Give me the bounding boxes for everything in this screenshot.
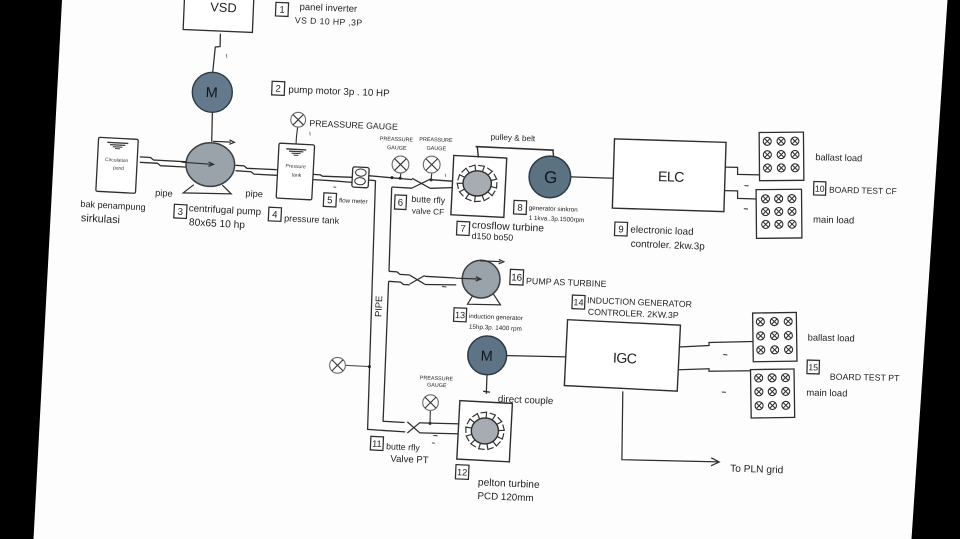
stray tick by VSD wire [225,54,228,58]
pipe pump to tank lower wall [236,171,277,176]
svg-text:Valve PT: Valve PT [390,454,429,467]
pipe valve V2 to PAT lower [425,284,457,286]
pipe tank to meter upper wall [313,174,352,177]
generator G1 circle [529,156,571,198]
svg-text:6: 6 [398,197,404,208]
label 16 box [510,269,524,285]
butterfly valve V3 blade A [407,422,420,433]
svg-text:ballast load: ballast load [808,333,855,344]
pump P1 stand [183,185,231,194]
butterfly valve V1 blade B [412,179,431,188]
ballast load bank PT [753,312,797,361]
pressure tank box [276,143,314,200]
label 10 box [814,182,826,196]
pressure gauge PG2 stem [430,173,433,180]
svg-text:GAUGE: GAUGE [427,382,447,389]
PAT center arrow [456,277,479,280]
svg-text:PCD 120mm: PCD 120mm [477,491,533,504]
wire motor M1 to pump P1 [211,112,214,141]
svg-text:d150 bo50: d150 bo50 [471,231,513,243]
svg-text:panel inverter: panel inverter [299,2,357,15]
svg-text:butte rfly: butte rfly [411,194,446,206]
dash minus CF lower [744,208,748,210]
circulation pond tank box [96,137,138,193]
svg-text:10: 10 [815,184,825,194]
label 2 box [272,81,285,95]
pipe valve V2 to PAT upper [425,276,456,278]
junction node gauge1 [399,177,402,180]
pelton turbine runner [471,418,498,444]
flow meter FM1 body [352,167,369,188]
svg-text:15: 15 [808,362,818,372]
junction node gauge2 [430,178,433,181]
butterfly valve V1 blade A [412,178,431,188]
pressure gauge PG1 [392,156,409,173]
pipe meter to valve upper wall [369,176,413,180]
pipe branch PAT lower wall [389,281,410,285]
pressure gauge PG0 stem [296,127,298,144]
label 15 box [807,360,820,374]
dash minus pelton pipe B [432,442,435,444]
dash minus PT lower [722,391,726,393]
svg-text:pond: pond [113,165,124,172]
tank water surface mark [286,149,306,156]
svg-text:To PLN grid: To PLN grid [730,464,784,477]
wire IGC to main PT [679,369,751,372]
svg-text:BOARD TEST CF: BOARD TEST CF [829,185,897,197]
svg-text:pipe: pipe [155,188,173,199]
pelton turbine box [457,401,513,462]
pipe valve V3 to pelton upper [420,423,460,424]
motor M1 circle [192,72,232,112]
svg-text:8: 8 [517,203,523,214]
PAT stand [468,294,501,305]
label 7 box [456,221,469,235]
label 1 box [275,2,288,16]
belt line [476,147,554,151]
label 13 box [454,308,467,322]
svg-text:GAUGE: GAUGE [387,145,407,152]
pump P1 center arrow [182,162,212,164]
pipe vertical left wall [368,181,406,432]
svg-text:flow meter: flow meter [339,197,368,205]
pipe vertical right wall upper [389,187,392,271]
svg-text:GAUGE: GAUGE [426,146,446,153]
svg-text:main load: main load [806,388,847,400]
label 8 box [514,200,527,214]
svg-text:11: 11 [372,439,382,449]
label 12 box [455,465,469,480]
svg-text:tank: tank [291,172,301,179]
stray tick right of PG2 [444,174,446,177]
svg-text:BOARD TEST PT: BOARD TEST PT [830,372,900,383]
label 3 box [174,204,187,218]
svg-text:14: 14 [573,297,584,307]
svg-text:ballast load: ballast load [815,152,862,163]
pipe valve to turbine lower wall [431,187,453,190]
dash minus PAT branch [442,285,446,288]
wire M2 to IGC [507,356,567,357]
svg-text:16: 16 [511,272,523,283]
junction node PG3 [368,365,371,368]
crossflow turbine runner [463,171,491,196]
svg-text:2: 2 [275,84,281,95]
svg-text:IGC: IGC [613,351,637,368]
svg-text:3: 3 [177,207,183,218]
VSD drive panel box [183,0,254,32]
PAT circle [462,260,500,298]
pipe valve to turbine upper wall [431,180,453,182]
svg-text:sirkulasi: sirkulasi [81,212,121,226]
wire G1 to ELC [571,177,613,178]
pressure gauge PG3 [330,357,346,373]
pipe branch PAT upper wall [389,271,410,275]
label 9 box [614,222,627,236]
pipe pond to pump upper wall [140,157,187,162]
butterfly valve V3 blade B [407,422,420,433]
belt right tick [552,150,555,156]
wire IGC to PLN grid [622,391,719,462]
coupling crossbar [483,391,490,392]
svg-text:M: M [205,85,218,101]
belt left tick [477,147,478,158]
svg-text:pipe: pipe [245,188,263,199]
wire ELC to ballast CF [725,167,760,175]
pressure gauge PG4 stem [429,410,431,423]
svg-text:Circulation: Circulation [105,157,129,164]
pipe valve V3 to pelton lower [420,433,460,434]
butterfly valve V2 blade A [410,275,425,284]
pressure gauge PG1 stem [399,173,402,178]
pressure gauge PG4 [423,395,439,411]
ELC controller box [612,139,726,212]
dash above label 5 [333,186,336,189]
svg-text:PIPE: PIPE [372,295,384,317]
IGC controller box [564,320,680,391]
junction node PG4 [429,422,432,425]
photo edge left [0,0,62,539]
stray tick by tank gauge [309,132,311,136]
wire M2 to coupling [485,375,488,394]
PAT outlet arrow [480,260,501,263]
motor M2 circle [468,336,507,375]
svg-text:13: 13 [455,310,466,320]
pipe meter to valve lower wall stub [369,179,376,182]
svg-text:butte rfly: butte rfly [386,441,421,452]
wire VSD to motor M1 [213,34,221,73]
pipe lower wall valve side [392,187,413,188]
svg-text:VSD: VSD [210,0,237,15]
wire IGC to ballast PT [679,342,753,348]
butterfly valve V2 blade B [410,276,425,285]
label 11 box [370,436,383,450]
photo edge right [912,0,960,539]
label 5 box [323,193,336,207]
pump P1 outlet arrow [213,140,231,143]
crossflow turbine box [451,155,507,217]
pressure gauge PG2 [423,156,440,173]
pipe tank to meter lower wall [313,180,352,183]
svg-text:Pressure: Pressure [285,163,306,170]
label 6 box [394,195,406,210]
pressure gauge PG3 line [345,365,369,366]
svg-text:M: M [480,349,493,365]
junction node pipe tee [391,176,394,179]
svg-text:9: 9 [618,224,624,235]
pipe pump to tank upper wall [236,165,277,169]
svg-text:5: 5 [327,195,333,206]
svg-text:G: G [544,168,558,187]
dash minus pelton pipe A [433,434,437,436]
svg-text:1: 1 [279,5,285,16]
main load bank CF [756,189,802,238]
label 14 box [572,295,585,309]
ballast load bank CF [759,132,804,181]
dash minus CF upper [744,185,748,187]
label 4 box [268,207,281,221]
wire ELC to main CF [725,191,757,199]
pressure gauge PG0 [291,112,306,127]
PLN arrowhead [711,458,719,466]
svg-text:ELC: ELC [658,169,685,186]
svg-text:main load: main load [813,215,854,227]
dash minus PT upper [723,354,727,356]
pipe pond to pump lower wall [140,162,187,167]
svg-text:pulley & belt: pulley & belt [490,133,536,144]
pipe vertical right wall lower [383,281,404,422]
pump P1 circle [186,143,235,187]
pond water surface mark [107,142,128,149]
svg-text:valve CF: valve CF [412,206,445,216]
main load bank PT [751,369,795,418]
svg-text:12: 12 [457,467,468,477]
svg-text:7: 7 [460,224,466,235]
